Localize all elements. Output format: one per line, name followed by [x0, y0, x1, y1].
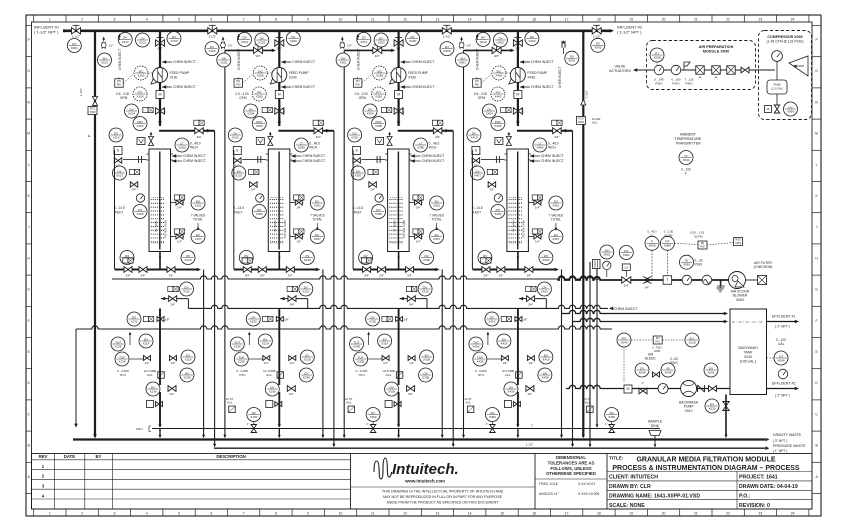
module 3 feed isolation valve	[394, 40, 403, 51]
svg-text:TITLE:: TITLE:	[609, 456, 624, 461]
svg-text:X410: X410	[541, 289, 548, 293]
chem injection point	[341, 42, 344, 49]
tank drain	[776, 94, 778, 109]
svg-text:X214: X214	[262, 341, 269, 345]
left lower drop pipe	[75, 329, 77, 427]
filter vessel 3	[388, 149, 410, 252]
DV X139 instrument	[146, 382, 160, 396]
svg-text:X401: X401	[459, 60, 466, 64]
bottom valve b	[378, 267, 386, 273]
svg-text:3/4": 3/4"	[251, 188, 256, 192]
svg-text:PID: PID	[700, 244, 704, 248]
mid drop connector	[517, 308, 519, 329]
DV X315 instrument	[348, 128, 362, 142]
TUT instrument	[350, 337, 364, 351]
svg-text:3/4": 3/4"	[645, 286, 650, 290]
svg-text:3/4": 3/4"	[290, 302, 295, 306]
M box on feed	[275, 91, 283, 99]
svg-text:X213: X213	[241, 40, 248, 44]
chem inject vertical label	[118, 37, 120, 41]
svg-text:X304: X304	[367, 111, 374, 115]
svg-text:1/4": 1/4"	[145, 361, 150, 365]
svg-text:1/4": 1/4"	[502, 361, 507, 365]
sample valve upper	[409, 202, 423, 204]
svg-text:21: 21	[694, 17, 698, 21]
svg-text:SINK: SINK	[651, 424, 660, 428]
vessel inlet valve	[433, 128, 442, 134]
module bottom pipe	[353, 269, 436, 271]
air bleed valve	[653, 372, 660, 377]
drain valve	[168, 386, 176, 392]
svg-text:15: 15	[500, 511, 504, 515]
svg-text:10: 10	[339, 17, 343, 21]
PIT instrument	[133, 87, 147, 101]
relief pair	[495, 138, 503, 145]
feed pipe arrow down	[516, 122, 520, 126]
svg-text:3/4": 3/4"	[435, 135, 440, 139]
LT instrument	[533, 138, 547, 152]
svg-text:CHEM INJECT: CHEM INJECT	[422, 159, 445, 163]
svg-text:RN: RN	[656, 336, 660, 340]
svg-text:X046: X046	[638, 370, 645, 374]
bottom valve b	[258, 267, 266, 273]
solenoid pair 2	[129, 169, 139, 174]
PIT lower instrument	[133, 205, 147, 219]
svg-text:7: 7	[243, 511, 245, 515]
svg-text:CHEM INJECT: CHEM INJECT	[531, 85, 554, 89]
svg-text:8: 8	[275, 511, 277, 515]
svg-text:12: 12	[403, 511, 407, 515]
svg-text:X115: X115	[113, 135, 120, 139]
svg-text:PID: PID	[656, 339, 660, 343]
svg-text:DIMENSIONAL: DIMENSIONAL	[556, 455, 586, 460]
svg-text:GRAVITY WASTE: GRAVITY WASTE	[773, 433, 802, 437]
feed pump 4	[509, 68, 526, 85]
svg-text:X265: X265	[257, 73, 264, 77]
EV upper instrument	[430, 196, 444, 210]
svg-text:1/4": 1/4"	[535, 206, 540, 210]
svg-text:1/4": 1/4"	[416, 206, 421, 210]
chem inject labels at vessel	[172, 154, 176, 158]
EV lower instrument	[191, 230, 205, 244]
chem inject arrow into feed	[520, 60, 524, 64]
effluent #1 pipe	[767, 321, 796, 323]
svg-text:X465: X465	[494, 94, 501, 98]
svg-text:TOTAL: TOTAL	[432, 218, 442, 222]
svg-text:3/4": 3/4"	[245, 273, 250, 277]
svg-text:(2 MICRON): (2 MICRON)	[754, 265, 773, 269]
svg-text:X315: X315	[351, 135, 358, 139]
svg-text:1/8": 1/8"	[165, 318, 170, 322]
svg-text:INCH: INCH	[309, 146, 317, 150]
svg-text:3/4": 3/4"	[255, 54, 260, 58]
svg-text:X114: X114	[143, 341, 150, 345]
drain valve	[526, 386, 534, 392]
svg-text:PSIG: PSIG	[655, 81, 663, 85]
svg-text:X202: X202	[258, 40, 265, 44]
svg-text:FOLLOWS, UNLESS: FOLLOWS, UNLESS	[550, 466, 591, 471]
svg-text:1/8": 1/8"	[284, 318, 289, 322]
svg-text:X118: X118	[185, 357, 192, 361]
tank inlet pipe 1	[562, 310, 725, 313]
DV X338 instrument	[419, 368, 433, 382]
svg-text:BLEED: BLEED	[645, 357, 656, 361]
manifold pipe C	[76, 326, 612, 329]
svg-text:1/8": 1/8"	[404, 318, 409, 322]
arrow down between valves	[316, 223, 318, 228]
influent2 PCV box	[576, 117, 585, 125]
svg-text:CHEM INJECT: CHEM INJECT	[541, 159, 564, 163]
svg-text:1/2": 1/2"	[528, 361, 533, 365]
PT X098 instrument	[650, 48, 664, 62]
S box	[353, 147, 361, 155]
svg-text:B2: B2	[701, 241, 705, 245]
svg-text:TANK: TANK	[744, 351, 754, 355]
svg-text:FEET: FEET	[473, 211, 481, 215]
svg-text:X215: X215	[232, 135, 239, 139]
svg-text:3/4": 3/4"	[141, 273, 146, 277]
arrow down between valves	[555, 223, 557, 228]
svg-text:PSIG: PSIG	[695, 263, 703, 267]
compressor drain valve	[774, 105, 780, 113]
open check valve	[643, 277, 652, 284]
air prep gauge 2	[671, 65, 681, 75]
chem inject label backwash	[605, 307, 608, 309]
pump valve	[639, 388, 647, 394]
svg-text:1-1/2": 1-1/2"	[79, 88, 83, 96]
svg-text:PRESSURE WASTE: PRESSURE WASTE	[773, 444, 806, 448]
air prep line	[637, 69, 745, 71]
svg-text:X.XXX ±0.005: X.XXX ±0.005	[578, 492, 599, 496]
svg-text:24: 24	[791, 511, 795, 515]
svg-text:X120: X120	[184, 258, 191, 262]
svg-text:5: 5	[178, 511, 180, 515]
svg-text:X040: X040	[744, 355, 752, 359]
EV X214 instrument	[258, 334, 272, 348]
svg-text:DESCRIPTION: DESCRIPTION	[216, 454, 245, 459]
svg-text:PROCESS & INSTRUMENTATION DIAG: PROCESS & INSTRUMENTATION DIAGRAM – PROC…	[612, 465, 800, 472]
M box on feed	[395, 91, 403, 99]
svg-text:3/4": 3/4"	[526, 273, 531, 277]
module left pipe	[352, 150, 354, 269]
svg-text:3/4": 3/4"	[196, 135, 201, 139]
svg-text:CHEM INJECT: CHEM INJECT	[173, 85, 196, 89]
P gauge	[256, 194, 264, 202]
svg-text:1/4": 1/4"	[296, 206, 301, 210]
SIC instrument (dashed)	[492, 66, 506, 80]
air regulator	[684, 62, 690, 70]
svg-text:TEMPERATURE: TEMPERATURE	[675, 137, 702, 141]
svg-text:3/4": 3/4"	[163, 108, 167, 113]
DV X439 instrument	[504, 382, 518, 396]
lower sol assembly	[385, 401, 392, 408]
svg-text:X490: X490	[494, 212, 501, 216]
svg-text:M: M	[159, 93, 162, 97]
svg-text:1/2": 1/2"	[409, 361, 414, 365]
svg-text:ACL: ACL	[147, 373, 153, 377]
DV X438 instrument	[538, 368, 552, 382]
svg-text:TOTAL: TOTAL	[551, 218, 561, 222]
svg-text:1": 1"	[605, 422, 607, 426]
chem inject vertical label	[238, 37, 240, 41]
feed pump 3	[390, 68, 407, 85]
chem inject arrow 2	[520, 85, 524, 89]
revision table	[32, 454, 351, 510]
valve below pair	[488, 182, 496, 188]
svg-text:X238: X238	[238, 359, 245, 363]
svg-text:1-1/2": 1-1/2"	[72, 34, 80, 38]
svg-text:CHEM INJECT: CHEM INJECT	[183, 154, 206, 158]
svg-text:X063: X063	[735, 241, 742, 245]
svg-text:X068: X068	[648, 244, 655, 248]
svg-text:DATE: DATE	[64, 454, 76, 459]
svg-text:X001: X001	[71, 46, 78, 50]
svg-text:X357: X357	[433, 237, 440, 241]
svg-text:X438: X438	[476, 359, 483, 363]
DV header instrument b	[525, 32, 539, 46]
feed pipe arrow down	[397, 122, 401, 126]
DV header instrument b	[286, 32, 300, 46]
compressor pipe	[776, 62, 778, 81]
feed elbow to vessel	[517, 130, 573, 132]
svg-text:X280: X280	[298, 145, 305, 149]
svg-text:1/4": 1/4"	[416, 240, 421, 244]
influent2 chem tube	[562, 41, 565, 48]
svg-text:1/4": 1/4"	[535, 240, 540, 244]
svg-text:NTU: NTU	[359, 373, 365, 377]
bottom valve b	[497, 267, 505, 273]
turbidity valve a	[263, 356, 270, 361]
sample valve lower	[528, 236, 542, 238]
svg-text:DRAWN BY: CLR: DRAWN BY: CLR	[609, 484, 651, 490]
compressor drain box	[765, 106, 772, 113]
backwash return branch	[168, 286, 178, 291]
svg-text:X232: X232	[250, 319, 257, 323]
svg-text:CA: CA	[624, 265, 628, 269]
vessel inlet valve	[195, 128, 204, 134]
tube valve	[472, 158, 480, 164]
influent2 relief	[581, 100, 586, 106]
interconnect valve	[254, 47, 263, 58]
svg-text:X107: X107	[116, 173, 123, 177]
svg-text:CLIENT: INTUITECH: CLIENT: INTUITECH	[609, 475, 658, 481]
svg-text:X305: X305	[375, 124, 382, 128]
svg-text:1": 1"	[642, 381, 645, 385]
module left pipe	[233, 150, 235, 269]
DV X204 instrument	[244, 104, 258, 118]
DV X332 instrument	[366, 312, 380, 326]
trunk riser pipes	[442, 50, 463, 446]
title block frame	[32, 454, 813, 510]
SIC instrument (dashed)	[253, 66, 267, 80]
svg-text:1/2": 1/2"	[228, 44, 233, 48]
module 1 feed drop pipe	[159, 31, 161, 68]
svg-text:X003: X003	[89, 110, 96, 114]
svg-text:1/8": 1/8"	[523, 318, 528, 322]
tube valve	[234, 158, 242, 164]
svg-text:X138: X138	[183, 375, 190, 379]
svg-text:SCALE: NONE: SCALE: NONE	[609, 503, 645, 509]
svg-text:2: 2	[81, 511, 83, 515]
backwash pump X010	[681, 381, 697, 397]
svg-text:FILTER X380: FILTER X380	[402, 220, 406, 238]
svg-text:X301: X301	[340, 60, 347, 64]
M box on feed	[514, 91, 522, 99]
valve below pair	[130, 182, 138, 188]
DV X238 instrument	[299, 368, 313, 382]
P gauge	[136, 194, 144, 202]
svg-text:0...14.5: 0...14.5	[114, 206, 125, 210]
bottom valve c	[167, 267, 175, 273]
tank 1.5 gal	[767, 80, 787, 94]
svg-text:GPM: GPM	[478, 96, 486, 100]
feed check valve	[275, 108, 284, 114]
turbidity valve b	[170, 356, 177, 361]
svg-text:F: F	[685, 172, 687, 176]
chem injection point	[460, 42, 463, 49]
svg-text:PSIG: PSIG	[685, 81, 693, 85]
RN PID box	[115, 79, 124, 88]
svg-text:X380: X380	[417, 145, 424, 149]
svg-text:X404: X404	[486, 111, 493, 115]
svg-text:M: M	[815, 132, 818, 136]
svg-text:1-1/2": 1-1/2"	[593, 34, 601, 38]
svg-text:X339: X339	[388, 389, 395, 393]
svg-text:1: 1	[49, 511, 51, 515]
svg-text:CHEM INJECT: CHEM INJECT	[356, 49, 360, 70]
vessel drain pipe	[517, 252, 519, 270]
svg-text:CHEM INJECT: CHEM INJECT	[302, 159, 325, 163]
sol box	[396, 372, 403, 379]
filter vessel 1	[149, 149, 171, 252]
svg-text:X044: X044	[620, 340, 627, 344]
DV X220 instrument	[300, 251, 314, 265]
vessel top-left instrument tube	[375, 159, 386, 161]
svg-text:X365: X365	[376, 73, 383, 77]
svg-text:RN: RN	[475, 79, 479, 83]
svg-text:PID: PID	[475, 82, 479, 86]
PIT X044 instrument	[617, 333, 631, 347]
svg-text:PSIG: PSIG	[670, 361, 678, 365]
svg-text:X207: X207	[235, 173, 242, 177]
chem inject arrow 2	[401, 85, 405, 89]
DV X307 instrument	[351, 166, 365, 180]
filter vessel 2	[268, 149, 290, 252]
tolerance box	[546, 455, 596, 476]
SH instrument	[455, 53, 469, 67]
svg-text:X260: X260	[370, 415, 377, 419]
grid row letters	[27, 38, 818, 479]
drip leg box	[593, 260, 601, 269]
svg-text:X351: X351	[433, 203, 440, 207]
svg-text:CHEM INJECT: CHEM INJECT	[302, 154, 325, 158]
TUT sample arrow	[487, 334, 489, 345]
riser bundle pipes	[590, 262, 597, 446]
svg-text:3/4": 3/4"	[483, 273, 488, 277]
air filter xbox 1	[696, 66, 705, 75]
svg-text:X436: X436	[472, 344, 479, 348]
compressor gauge	[772, 51, 783, 62]
svg-text:SAMPLE: SAMPLE	[648, 420, 663, 424]
DV X106 instrument	[120, 251, 134, 265]
svg-text:3/4": 3/4"	[169, 273, 174, 277]
svg-text:INCH: INCH	[190, 146, 198, 150]
air filter box	[758, 276, 767, 285]
svg-text:MODULE X090: MODULE X090	[703, 50, 729, 54]
pressure waste manifold	[214, 447, 765, 449]
DV header instrument a	[476, 32, 490, 46]
influent #2 branch valve	[592, 28, 601, 39]
svg-text:3: 3	[113, 511, 115, 515]
sample valve upper	[528, 202, 542, 204]
svg-text:13: 13	[436, 511, 440, 515]
svg-text:1/2": 1/2"	[290, 361, 295, 365]
svg-text:AIR PREPARATION: AIR PREPARATION	[699, 45, 734, 49]
svg-text:[145 GAL.]: [145 GAL.]	[740, 360, 756, 364]
feed pipe arrow down	[278, 122, 282, 126]
PRV instrument	[372, 117, 386, 131]
svg-text:2F: 2F	[766, 107, 770, 111]
svg-text:X060: X060	[736, 298, 744, 302]
PIT lower instrument	[491, 205, 505, 219]
EV X314 instrument	[378, 334, 392, 348]
influent #2 drop pipe	[582, 31, 584, 437]
svg-text:3/4": 3/4"	[277, 47, 282, 51]
svg-text:3/4": 3/4"	[289, 392, 294, 396]
valve below pair	[250, 182, 257, 188]
DV X239 instrument	[265, 382, 279, 396]
inlet valve solenoid	[432, 120, 442, 125]
svg-text:INCH: INCH	[548, 146, 556, 150]
interconnect pipe	[225, 49, 273, 51]
air line valve	[622, 277, 631, 288]
tank drain valve	[723, 402, 729, 411]
svg-text:CHEM INJECT: CHEM INJECT	[422, 154, 445, 158]
DV X460 instrument	[605, 408, 619, 422]
svg-text:ACL: ACL	[227, 401, 233, 405]
svg-text:TOTAL: TOTAL	[312, 218, 322, 222]
chem injection point	[102, 42, 105, 49]
svg-text:18: 18	[597, 511, 601, 515]
svg-text:G: G	[815, 288, 818, 292]
svg-text:1/2": 1/2"	[466, 44, 471, 48]
FIC instrument	[685, 333, 699, 347]
svg-text:X096: X096	[787, 109, 794, 113]
PRV instrument	[252, 117, 266, 131]
solenoid pair 2	[487, 169, 497, 174]
svg-text:X139: X139	[149, 389, 156, 393]
svg-text:X413: X413	[480, 40, 487, 44]
DV X415 instrument	[467, 128, 481, 142]
svg-text:CHEM INJECT: CHEM INJECT	[173, 60, 196, 64]
gravity waste manifold	[73, 438, 765, 440]
svg-text:O: O	[27, 69, 30, 73]
svg-text:3/4": 3/4"	[528, 302, 533, 306]
chem inject arrow into feed	[281, 60, 285, 64]
DV header instrument a	[357, 32, 371, 46]
DV header instrument b	[406, 32, 420, 46]
module 4 feed isolation valve	[513, 40, 522, 51]
sample sink symbol	[649, 431, 661, 436]
vessel inlet valve	[314, 128, 323, 134]
svg-text:( 3" NPT ): ( 3" NPT )	[773, 439, 787, 443]
svg-text:CHEM INJECT: CHEM INJECT	[292, 85, 315, 89]
header valve 3	[442, 28, 451, 39]
PI pump instrument	[661, 363, 675, 377]
svg-text:X439: X439	[507, 389, 514, 393]
vessel inlet valve	[553, 128, 562, 134]
svg-text:3/4": 3/4"	[132, 188, 137, 192]
